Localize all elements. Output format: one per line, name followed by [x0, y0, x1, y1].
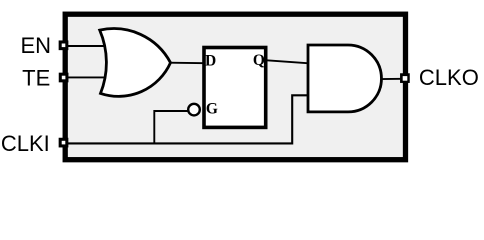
wire latch Q output to AND input: [265, 60, 309, 63]
wire branch to latch G bubble: [154, 111, 190, 143]
pin TE: [59, 73, 69, 83]
svg-text:G: G: [206, 101, 218, 118]
svg-text:CLKO: CLKO: [419, 65, 479, 90]
svg-text:EN: EN: [20, 33, 51, 58]
svg-text:D: D: [205, 53, 216, 70]
pin CLKO: [400, 73, 410, 83]
wire OR output to latch D input: [169, 62, 206, 65]
svg-text:TE: TE: [22, 66, 50, 91]
svg-text:Q: Q: [253, 52, 265, 69]
pin CLKI: [59, 138, 69, 148]
wire AND output to CLKO pin: [380, 78, 402, 80]
AND gate U3: [308, 45, 381, 112]
svg-text:CLKI: CLKI: [1, 131, 50, 156]
pin EN: [59, 40, 69, 50]
latch G-input bubble: [188, 104, 200, 116]
D latch U2 body: [204, 48, 266, 128]
wire EN pin to OR input: [64, 45, 111, 47]
wire TE pin to OR input: [64, 76, 110, 78]
wire CLKI horizontal run: [64, 95, 310, 143]
cell boundary box: [65, 14, 405, 160]
OR gate U1: [100, 29, 171, 97]
